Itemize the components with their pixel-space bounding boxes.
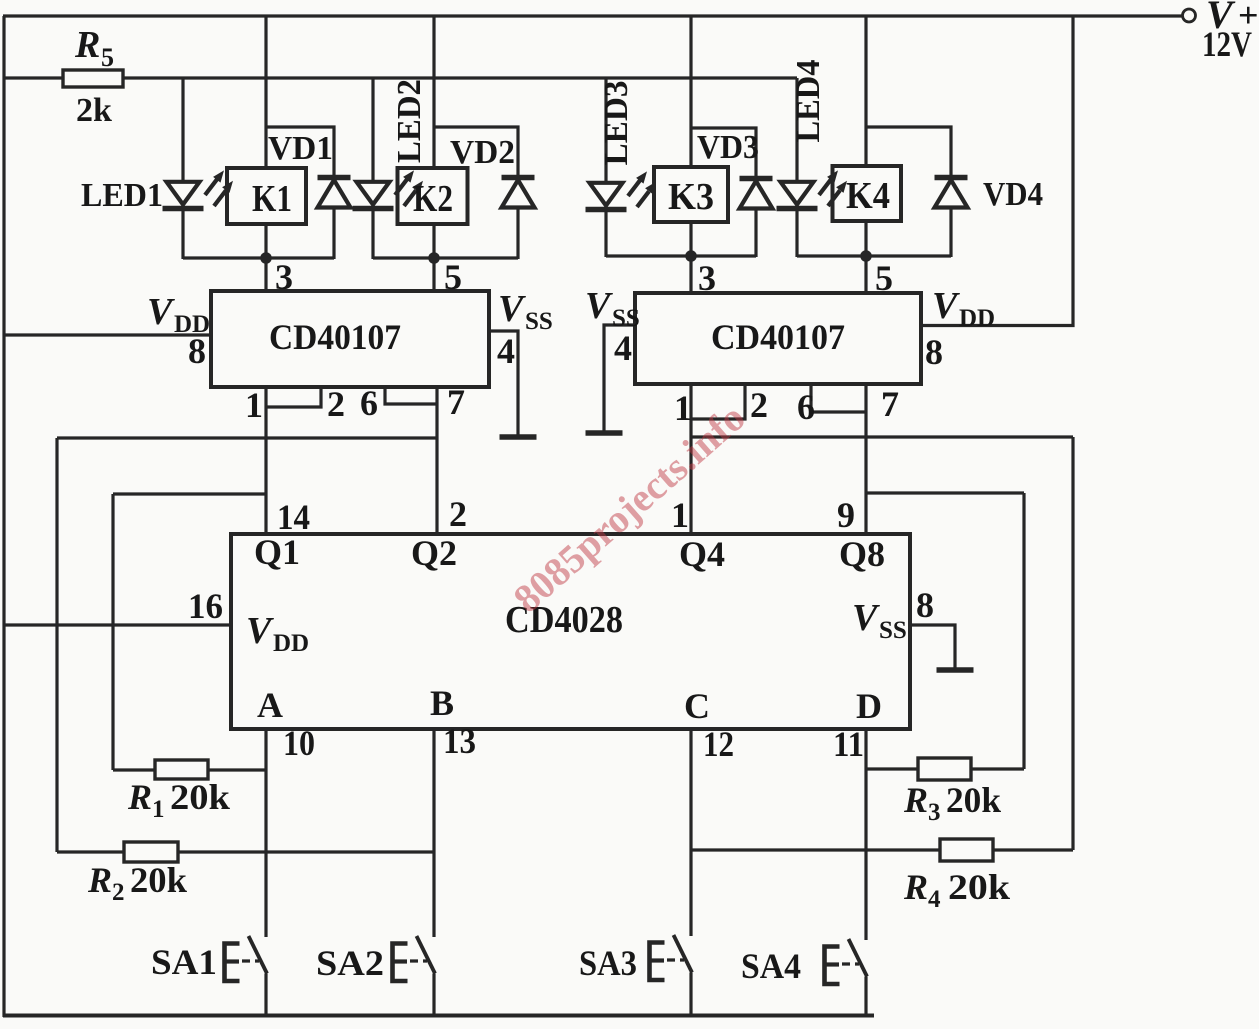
wire: VD3 top loop xyxy=(691,128,756,180)
svg-text:8: 8 xyxy=(925,332,943,372)
wire: LED3 cathode to tie xyxy=(604,206,607,257)
wire: VD1 top loop xyxy=(266,127,334,179)
svg-text:20k: 20k xyxy=(948,867,1010,907)
wire: right CD40107 pin1 down to CD4028 pin1 xyxy=(689,384,692,534)
wire: CD4028 pin16 VDD to left rail xyxy=(3,623,231,626)
svg-text:8: 8 xyxy=(188,331,206,371)
svg-text:DD: DD xyxy=(273,630,309,657)
svg-text:V: V xyxy=(498,288,526,330)
svg-text:4: 4 xyxy=(928,886,941,913)
relay K1 box xyxy=(227,168,306,224)
value label R3 20k xyxy=(903,780,1001,826)
wire: SA3 to bottom rail xyxy=(689,973,692,1018)
svg-text:LED1: LED1 xyxy=(81,177,163,214)
svg-text:VD1: VD1 xyxy=(268,130,333,167)
wire: K2 feed from top rail xyxy=(432,16,435,168)
wire: LED2 cathode to tie xyxy=(371,205,374,259)
svg-text:1: 1 xyxy=(674,388,692,428)
svg-text:2: 2 xyxy=(112,879,125,906)
ground: CD4028 pin8 xyxy=(937,669,974,671)
label V+ supply xyxy=(1206,0,1259,37)
wire: VDD riser right CD40107 to top rail xyxy=(921,16,1073,326)
svg-text:V: V xyxy=(585,285,613,327)
wire: R4 row C input xyxy=(691,848,1073,851)
wire: node 5 tie LED4-K4-VD4 xyxy=(797,254,951,257)
wire: K3 bottom to node 3 xyxy=(689,222,692,293)
resistor R3 xyxy=(918,758,971,780)
wire: LED1 cathode to tie xyxy=(181,205,184,259)
wire: SA2 to bottom rail xyxy=(432,974,435,1018)
svg-text:Q2: Q2 xyxy=(411,533,457,573)
svg-text:6: 6 xyxy=(797,387,815,427)
svg-text:1: 1 xyxy=(245,385,263,425)
wire: R3 row D input xyxy=(866,767,1024,770)
wire: K4 feed from top rail xyxy=(864,16,867,166)
wire: right CD40107 pin4 VSS to ground xyxy=(604,325,635,433)
svg-text:CD40107: CD40107 xyxy=(711,317,845,357)
svg-text:20k: 20k xyxy=(170,777,230,817)
svg-text:14: 14 xyxy=(277,497,310,537)
wire: R5 LED supply rail xyxy=(3,76,797,79)
node 3 junction dot (K3) xyxy=(685,250,697,262)
svg-text:A: A xyxy=(257,685,283,725)
svg-text:V: V xyxy=(852,597,880,639)
svg-text:13: 13 xyxy=(443,721,476,761)
wire: Q8 feedback net horizontal xyxy=(866,491,1024,494)
svg-text:VD3: VD3 xyxy=(697,129,759,166)
switch SA2 symbol xyxy=(393,936,436,981)
wire: K1 bottom to node 3 xyxy=(264,224,267,292)
LED LED3 arrows xyxy=(628,171,656,207)
wire: node 5 tie LED2-K2-VD2 xyxy=(373,256,518,259)
wire: node 3 tie LED1-K1-VD1 xyxy=(183,256,334,259)
wire: SA4 to bottom rail xyxy=(864,977,867,1018)
node 5 junction dot (K2) xyxy=(428,252,440,264)
wire: VD2 top loop xyxy=(434,127,518,179)
svg-text:5: 5 xyxy=(875,258,893,298)
resistor R2 xyxy=(124,842,178,862)
value label R1 20k xyxy=(127,777,230,823)
wire: A column CD4028 pin10 to SA1 xyxy=(264,729,267,937)
node 3 junction dot (K1) xyxy=(260,252,272,264)
wire: VD3 anode to tie xyxy=(754,207,757,257)
svg-text:7: 7 xyxy=(881,384,899,424)
label VDD CD4028 xyxy=(246,610,309,657)
LED LED1 arrows xyxy=(205,170,233,206)
svg-text:R: R xyxy=(903,780,928,820)
diode VD4 symbol xyxy=(935,178,968,208)
wire: LED3 anode drop xyxy=(604,78,607,184)
diode VD3 symbol xyxy=(740,179,773,209)
wire: K1 feed from top rail xyxy=(264,16,267,168)
wire: left edge vertical rail xyxy=(2,16,5,1017)
svg-text:3: 3 xyxy=(275,257,293,297)
svg-text:B: B xyxy=(430,683,454,723)
wire: LED2 anode drop xyxy=(371,78,374,183)
svg-text:1: 1 xyxy=(671,495,689,535)
svg-text:1: 1 xyxy=(152,796,165,823)
svg-text:4: 4 xyxy=(497,331,515,371)
wire: B column CD4028 pin13 to SA2 xyxy=(432,729,435,937)
svg-text:SA3: SA3 xyxy=(579,943,637,983)
svg-text:12: 12 xyxy=(703,724,734,764)
LED LED1 symbol xyxy=(163,182,204,209)
svg-text:R: R xyxy=(903,867,928,907)
label VSS CD4028 xyxy=(852,597,907,644)
svg-text:9: 9 xyxy=(837,495,855,535)
wire: Q2 feedback net horizontal xyxy=(57,436,437,439)
wire: K4 bottom to node 5 xyxy=(864,221,867,293)
wire: Q1 feedback net horizontal xyxy=(113,492,266,495)
wire: R2 row B input xyxy=(57,850,434,853)
wire: left CD40107 pin8 VDD to left rail xyxy=(3,333,211,336)
svg-text:Q4: Q4 xyxy=(679,534,725,574)
wire: Q8 feedback right drop xyxy=(1022,493,1025,769)
wire: Q4 feedback right drop xyxy=(1071,437,1074,850)
wire: left CD40107 pin1 down to CD4028 pin14 xyxy=(264,387,267,534)
svg-text:SA4: SA4 xyxy=(741,946,801,986)
svg-text:CD40107: CD40107 xyxy=(269,317,401,357)
label VSS right CD40107 xyxy=(585,285,640,332)
wire: bottom ground rail xyxy=(3,1014,874,1018)
svg-text:20k: 20k xyxy=(130,860,187,900)
svg-text:R: R xyxy=(127,777,152,817)
svg-text:K1: K1 xyxy=(252,178,292,220)
svg-text:5: 5 xyxy=(101,43,114,72)
wire: V+ top rail xyxy=(3,14,1183,17)
svg-text:SA1: SA1 xyxy=(151,942,217,982)
wire: K2 bottom to node 5 xyxy=(432,224,435,292)
wire: Q2 feedback left drop xyxy=(55,438,58,852)
wire: CD4028 pin8 VSS to ground xyxy=(910,625,955,670)
svg-text:4: 4 xyxy=(614,328,632,368)
wire: LED1 anode drop xyxy=(181,78,184,183)
resistor R4 xyxy=(940,839,993,861)
op-amp U2: right CD40107 IC box xyxy=(635,293,921,384)
svg-text:Q1: Q1 xyxy=(254,532,300,572)
wire: SA1 to bottom rail xyxy=(264,974,267,1018)
svg-text:2: 2 xyxy=(327,384,345,424)
wire: LED4 anode drop xyxy=(795,78,798,183)
node 5 junction dot (K4) xyxy=(860,250,872,262)
op-amp U3: CD4028 IC box xyxy=(231,534,910,729)
wire: left CD40107 pin2 stub xyxy=(266,387,321,407)
svg-text:2k: 2k xyxy=(76,92,112,129)
wire: right CD40107 pin2 stub xyxy=(691,384,745,419)
relay K4 box xyxy=(833,166,902,221)
wire: D column CD4028 pin11 to SA4 xyxy=(864,729,867,940)
wire: Q1 feedback left drop xyxy=(111,494,114,770)
svg-text:12V: 12V xyxy=(1202,24,1252,64)
relay K3 box xyxy=(654,167,728,222)
svg-text:LED3: LED3 xyxy=(598,81,635,166)
svg-text:20k: 20k xyxy=(946,780,1001,820)
wire: right CD40107 pin6 stub xyxy=(811,384,866,412)
wire: right CD40107 pin7 down to CD4028 pin9 xyxy=(864,384,867,534)
switch SA1 symbol xyxy=(225,936,268,981)
LED LED4 arrows xyxy=(819,170,847,206)
svg-text:SS: SS xyxy=(525,308,553,335)
resistor R1 xyxy=(155,760,208,779)
svg-text:3: 3 xyxy=(698,258,716,298)
svg-text:7: 7 xyxy=(447,382,465,422)
svg-text:SA2: SA2 xyxy=(316,943,384,983)
svg-text:10: 10 xyxy=(283,723,315,763)
svg-text:8: 8 xyxy=(916,585,934,625)
wire: node 3 tie LED3-K3-VD3 xyxy=(606,254,756,257)
label VSS left CD40107 pin4 xyxy=(498,288,553,335)
resistor R5 xyxy=(63,70,123,87)
svg-text:LED4: LED4 xyxy=(790,60,827,143)
svg-text:R: R xyxy=(87,860,112,900)
svg-text:6: 6 xyxy=(360,383,378,423)
svg-text:2: 2 xyxy=(750,385,768,425)
LED LED4 symbol xyxy=(777,182,818,209)
svg-text:VD2: VD2 xyxy=(450,134,515,171)
wire: VD2 anode to tie xyxy=(516,206,519,259)
wire: VD4 anode to tie xyxy=(949,206,952,257)
svg-text:K3: K3 xyxy=(668,176,714,218)
svg-text:D: D xyxy=(856,686,882,726)
svg-text:5: 5 xyxy=(444,257,462,297)
wire: Q4 feedback net horizontal xyxy=(691,435,1073,438)
wire: VD1 anode to tie xyxy=(332,206,335,259)
svg-text:K4: K4 xyxy=(846,175,890,217)
svg-text:11: 11 xyxy=(833,724,864,764)
wire: LED4 cathode to tie xyxy=(795,205,798,257)
wire: C column CD4028 pin12 to SA3 xyxy=(689,729,692,936)
value label R2 20k xyxy=(87,860,187,906)
ground: left CD40107 pin4 xyxy=(500,436,537,438)
svg-text:K2: K2 xyxy=(413,178,453,220)
svg-text:16: 16 xyxy=(188,586,223,626)
svg-text:VD4: VD4 xyxy=(983,176,1043,213)
wire: left CD40107 pin6 stub xyxy=(385,387,437,404)
relay K2 box xyxy=(398,168,468,224)
diode VD2 symbol xyxy=(502,178,535,208)
svg-text:V: V xyxy=(932,285,960,327)
op-amp U1: left CD40107 IC box xyxy=(211,291,489,387)
terminal: V+ supply circle xyxy=(1183,9,1196,22)
ground: right CD40107 pin4 xyxy=(586,432,623,434)
label VDD right CD40107 xyxy=(932,285,995,332)
label VDD left CD40107 xyxy=(147,291,210,338)
LED LED2 arrows xyxy=(395,170,423,206)
value label R5 xyxy=(74,24,114,72)
wire: VD4 top loop xyxy=(866,127,951,179)
svg-text:DD: DD xyxy=(959,305,995,332)
wire: left CD40107 pin7 down to CD4028 pin2 xyxy=(435,387,438,534)
switch SA3 symbol xyxy=(650,935,693,980)
LED LED3 symbol xyxy=(586,183,627,210)
svg-text:Q8: Q8 xyxy=(839,534,885,574)
svg-text:R: R xyxy=(74,24,100,66)
wire: R1 row A input xyxy=(113,768,266,771)
value label R4 20k xyxy=(903,867,1010,913)
svg-text:3: 3 xyxy=(928,799,941,826)
wire: K3 feed from top rail xyxy=(689,16,692,167)
svg-text:LED2: LED2 xyxy=(391,79,428,163)
svg-text:SS: SS xyxy=(879,617,907,644)
svg-text:V: V xyxy=(246,610,274,652)
svg-text:2: 2 xyxy=(449,494,467,534)
switch SA4 symbol xyxy=(825,939,868,984)
svg-text:V: V xyxy=(147,291,175,333)
svg-text:C: C xyxy=(684,686,710,726)
diode VD1 symbol xyxy=(318,178,351,208)
LED LED2 symbol xyxy=(353,182,394,209)
wire: left CD40107 pin4 VSS to ground xyxy=(489,331,518,437)
